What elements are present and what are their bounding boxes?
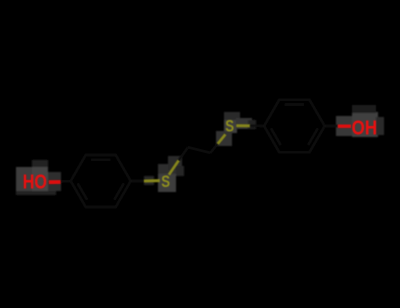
bond S1-CH2a sulfur half (169, 160, 179, 175)
svg-text:S: S (225, 117, 234, 136)
benzene ring 2 (right) (264, 100, 325, 152)
label S2 (225, 117, 234, 136)
label OH (352, 116, 377, 139)
artifact patch behind OH label (336, 105, 384, 137)
label S1 (161, 173, 170, 192)
label HO (23, 170, 47, 193)
ring2 double bond top (285, 103, 304, 106)
svg-text:HO: HO (23, 170, 47, 193)
bond ring1-S1 carbon half (131, 180, 145, 183)
svg-text:OH: OH (352, 116, 377, 139)
artifact patch behind S1 label (144, 156, 184, 192)
bond S2-ring2 carbon half (250, 125, 264, 128)
bond S2-ring2 sulfur half (236, 124, 250, 127)
bond O-ring1 red half (dash next to HO) (49, 180, 61, 184)
ring1 double bond lower-left (78, 183, 88, 200)
bond CH2b-S2 carbon half (210, 144, 217, 153)
ring1 double bond top (91, 159, 110, 162)
benzene ring 1 (left) (71, 155, 131, 207)
bond O-ring1 carbon half (61, 180, 71, 183)
bond ring1-S1 sulfur half (144, 179, 160, 182)
svg-text:S: S (161, 173, 170, 192)
artifact patch behind S2 label (216, 112, 256, 146)
ring2 double bond lower-right (308, 128, 318, 145)
bond CH2b-S2 sulfur half (218, 134, 226, 143)
artifact patch behind HO label (16, 160, 61, 195)
bond ring2-O carbon half (325, 125, 338, 128)
ring1 double bond lower-right (114, 183, 124, 200)
bond CH2a-CH2b (188, 147, 210, 153)
ring2 double bond lower-left (271, 128, 281, 145)
bond S1-CH2a carbon half (179, 147, 188, 160)
bond ring2-O red half (dash next to OH) (338, 124, 351, 127)
